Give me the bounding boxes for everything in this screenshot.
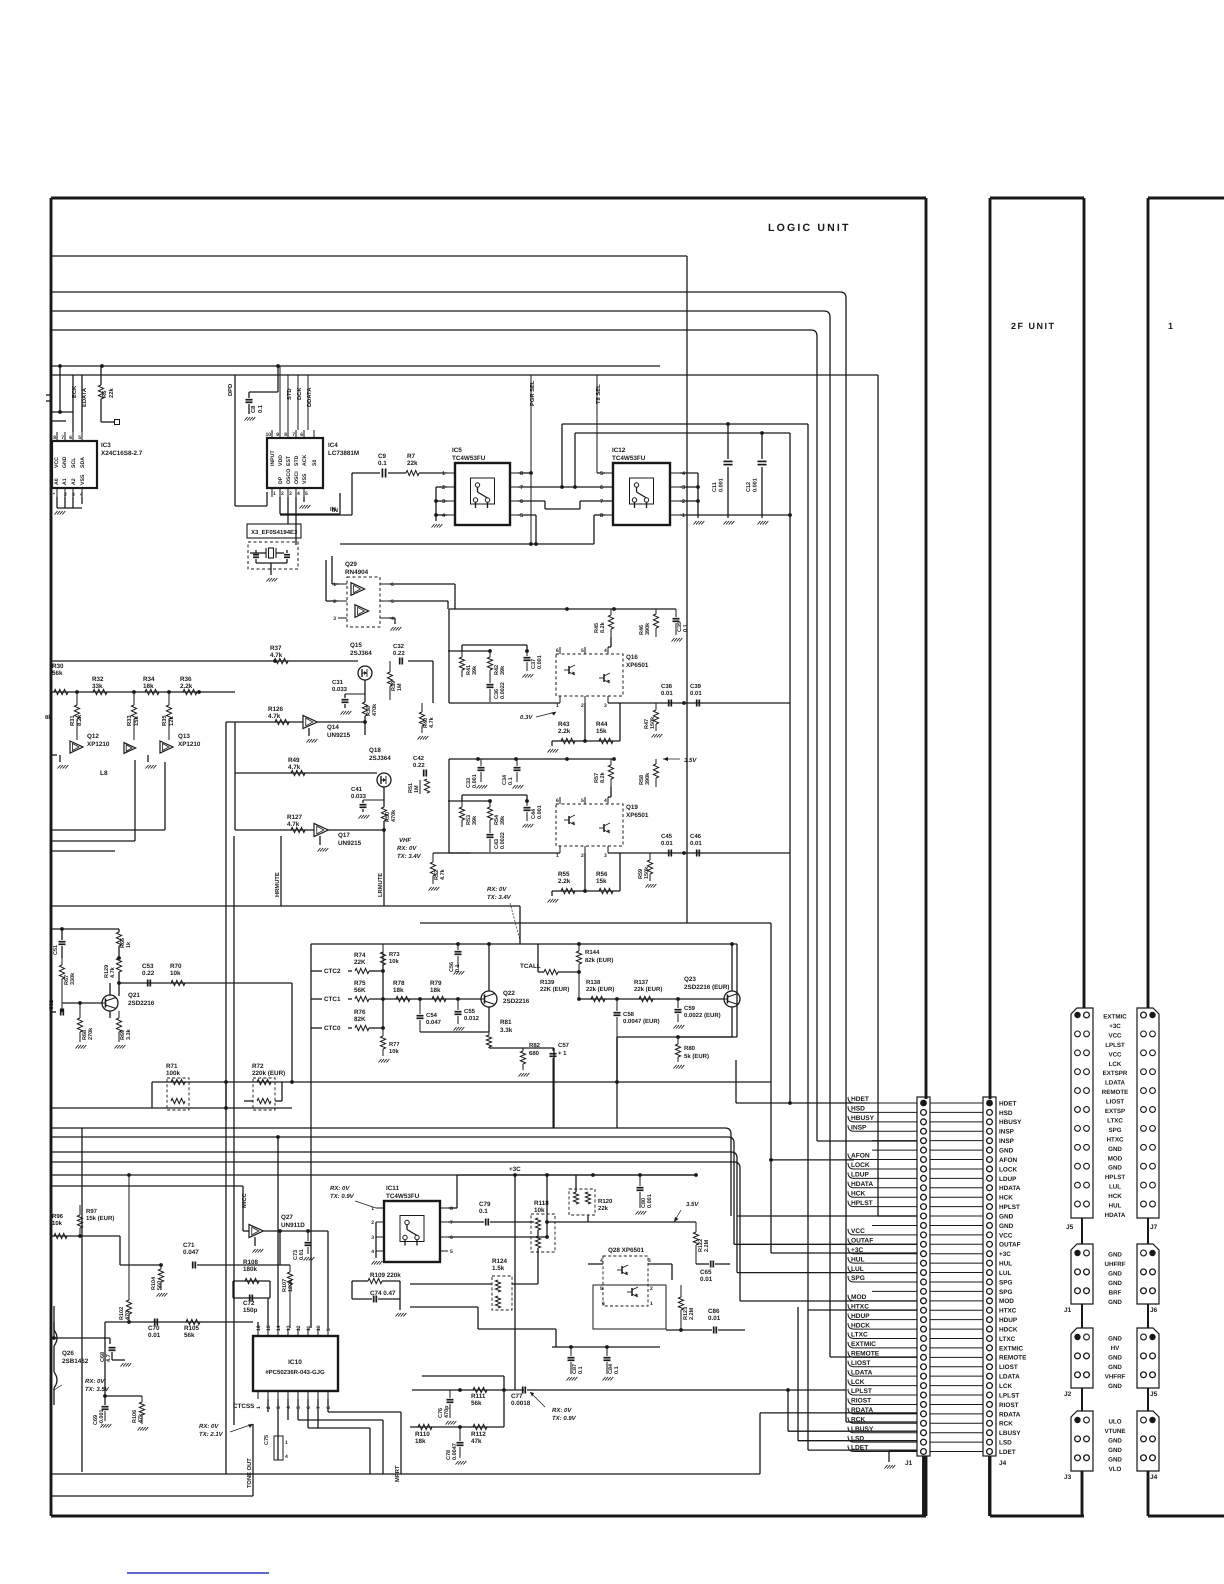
- svg-text:LIOST: LIOST: [851, 1360, 870, 1367]
- svg-text:J1: J1: [905, 1460, 913, 1467]
- svg-text:C86: C86: [708, 1308, 720, 1315]
- svg-text:HSD: HSD: [851, 1106, 865, 1113]
- svg-text:HDUP: HDUP: [851, 1313, 870, 1320]
- svg-text:1: 1: [1168, 321, 1173, 331]
- svg-text:STD: STD: [294, 455, 300, 466]
- svg-text:3.3k: 3.3k: [500, 1027, 513, 1034]
- svg-text:R49: R49: [288, 757, 300, 764]
- svg-text:ULO: ULO: [1108, 1419, 1121, 1426]
- svg-text:15k: 15k: [596, 878, 607, 885]
- svg-text:2.2k: 2.2k: [180, 683, 193, 690]
- svg-text:3.5V: 3.5V: [684, 757, 697, 764]
- svg-text:STD: STD: [286, 388, 293, 400]
- svg-text:2.2k: 2.2k: [558, 728, 571, 735]
- svg-text:DPD: DPD: [228, 384, 234, 396]
- svg-text:TX: 0.9V: TX: 0.9V: [552, 1415, 577, 1422]
- svg-text:ECK: ECK: [71, 385, 78, 398]
- svg-text:0.001: 0.001: [537, 805, 543, 819]
- svg-text:0.22: 0.22: [393, 650, 405, 657]
- svg-text:RDATA: RDATA: [851, 1407, 873, 1414]
- svg-text:4: 4: [285, 1454, 288, 1460]
- svg-text:C42: C42: [413, 755, 425, 762]
- svg-text:2.2M: 2.2M: [704, 1239, 710, 1252]
- svg-text:LPLST: LPLST: [999, 1392, 1019, 1399]
- svg-text:0.1: 0.1: [578, 1366, 584, 1374]
- svg-text:R81: R81: [500, 1019, 512, 1026]
- svg-text:HDUP: HDUP: [999, 1317, 1018, 1324]
- svg-text:3: 3: [289, 491, 292, 497]
- svg-text:SCL: SCL: [71, 457, 77, 468]
- svg-text:RCK: RCK: [851, 1416, 866, 1423]
- svg-text:UHFRF: UHFRF: [1105, 1261, 1126, 1268]
- svg-text:10: 10: [265, 432, 271, 438]
- svg-text:UN9215: UN9215: [327, 732, 351, 739]
- svg-text:100k: 100k: [166, 1070, 181, 1077]
- svg-text:HDET: HDET: [999, 1100, 1016, 1107]
- svg-text:EXTMIC: EXTMIC: [851, 1341, 876, 1348]
- svg-text:1M: 1M: [397, 683, 403, 691]
- svg-text:39k: 39k: [472, 815, 478, 825]
- svg-text:1: 1: [285, 1440, 288, 1446]
- svg-text:4.7k: 4.7k: [440, 868, 446, 880]
- svg-text:VLO: VLO: [1109, 1466, 1122, 1473]
- svg-text:47k: 47k: [471, 1438, 482, 1445]
- svg-text:MOD: MOD: [1108, 1155, 1123, 1162]
- svg-text:R79: R79: [430, 980, 442, 987]
- svg-text:HBUSY: HBUSY: [851, 1115, 875, 1122]
- svg-text:*: *: [53, 492, 55, 498]
- svg-text:TX: 0.9V: TX: 0.9V: [330, 1193, 355, 1200]
- svg-text:R126: R126: [268, 706, 284, 713]
- svg-text:GND: GND: [999, 1223, 1014, 1230]
- svg-text:0.047: 0.047: [426, 1019, 442, 1026]
- svg-text:5: 5: [600, 1286, 603, 1292]
- svg-text:10k: 10k: [52, 1220, 63, 1227]
- svg-text:#PC50236R-043-GJG: #PC50236R-043-GJG: [265, 1369, 325, 1376]
- svg-text:0.1: 0.1: [378, 460, 387, 467]
- svg-text:56k: 56k: [184, 1332, 195, 1339]
- svg-text:R56: R56: [596, 871, 608, 878]
- svg-text:C72: C72: [243, 1300, 255, 1307]
- svg-text:J3: J3: [1064, 1474, 1072, 1481]
- svg-text:R78: R78: [393, 980, 405, 987]
- svg-text:IC5: IC5: [452, 447, 462, 454]
- svg-text:3.3k: 3.3k: [126, 1028, 132, 1040]
- svg-text:0.01: 0.01: [148, 1332, 161, 1339]
- svg-text:LTXC: LTXC: [1107, 1117, 1123, 1124]
- svg-text:0.0047 (EUR): 0.0047 (EUR): [623, 1018, 660, 1025]
- svg-text:0.1: 0.1: [614, 1366, 620, 1374]
- svg-text:OUTAF: OUTAF: [851, 1238, 873, 1245]
- svg-text:ACK: ACK: [302, 455, 308, 466]
- svg-text:REMOTE: REMOTE: [999, 1355, 1027, 1362]
- svg-text:RCK: RCK: [999, 1421, 1013, 1428]
- svg-text:22k: 22k: [598, 1205, 609, 1212]
- svg-text:22k: 22k: [108, 388, 115, 398]
- svg-text:2: 2: [682, 499, 685, 505]
- svg-text:3: 3: [371, 1235, 374, 1241]
- svg-text:IC12: IC12: [612, 447, 626, 454]
- svg-text:R34: R34: [143, 676, 155, 683]
- svg-text:5: 5: [581, 648, 584, 654]
- svg-text:4: 4: [604, 648, 607, 654]
- svg-text:1: 1: [333, 582, 336, 588]
- svg-text:BRF: BRF: [1109, 1289, 1122, 1296]
- svg-text:7: 7: [292, 432, 295, 438]
- svg-text:TX: 2.1V: TX: 2.1V: [199, 1431, 224, 1438]
- svg-text:DP: DP: [278, 476, 284, 484]
- svg-text:DCK: DCK: [296, 387, 303, 400]
- svg-text:SPG: SPG: [999, 1279, 1013, 1286]
- svg-text:LBUSY: LBUSY: [851, 1426, 874, 1433]
- svg-text:GND: GND: [1108, 1364, 1122, 1371]
- svg-text:S0: S0: [312, 460, 318, 466]
- svg-text:C9: C9: [378, 453, 387, 460]
- svg-text:0.001: 0.001: [719, 478, 725, 492]
- svg-text:C39: C39: [690, 683, 702, 690]
- svg-text:4.7k: 4.7k: [110, 966, 116, 978]
- svg-text:2SD2216 (EUR): 2SD2216 (EUR): [684, 984, 730, 991]
- svg-text:PGR SEL: PGR SEL: [529, 380, 536, 406]
- svg-text:4.7: 4.7: [106, 1354, 112, 1362]
- svg-text:0.01: 0.01: [661, 840, 673, 847]
- svg-text:TC4W53FU: TC4W53FU: [612, 455, 646, 462]
- svg-text:CTC1: CTC1: [324, 996, 341, 1003]
- svg-text:13: 13: [286, 1325, 292, 1331]
- svg-text:0.01: 0.01: [299, 1249, 305, 1260]
- svg-text:HV: HV: [1111, 1345, 1120, 1352]
- svg-text:HUL: HUL: [1109, 1203, 1122, 1210]
- svg-text:0.1: 0.1: [455, 964, 461, 972]
- svg-text:4: 4: [297, 491, 300, 497]
- svg-text:2F UNIT: 2F UNIT: [1011, 321, 1056, 331]
- svg-text:2: 2: [266, 1406, 272, 1409]
- svg-text:R70: R70: [170, 963, 182, 970]
- svg-text:0.22: 0.22: [142, 970, 155, 977]
- svg-text:1: 1: [442, 471, 445, 477]
- svg-text:IC11: IC11: [386, 1185, 399, 1192]
- svg-text:C71: C71: [183, 1242, 195, 1249]
- svg-text:C57: C57: [558, 1042, 570, 1049]
- svg-text:R120: R120: [598, 1198, 613, 1205]
- svg-text:R73: R73: [389, 951, 400, 958]
- svg-text:3: 3: [276, 1406, 282, 1409]
- svg-text:8.2k: 8.2k: [600, 621, 606, 633]
- svg-text:1k: 1k: [126, 941, 132, 948]
- svg-text:4: 4: [604, 798, 607, 804]
- svg-text:LOCK: LOCK: [999, 1166, 1017, 1173]
- svg-text:0.1: 0.1: [683, 624, 689, 632]
- svg-text:LBUSY: LBUSY: [999, 1430, 1021, 1437]
- svg-text:2: 2: [442, 485, 445, 491]
- svg-text:SDA: SDA: [80, 457, 86, 468]
- svg-text:IC4: IC4: [328, 442, 338, 449]
- svg-text:RX: 0V: RX: 0V: [487, 886, 507, 893]
- svg-text:22k: 22k: [407, 460, 418, 467]
- svg-text:270k: 270k: [88, 1027, 94, 1040]
- svg-text:R31: R31: [69, 715, 76, 726]
- svg-text:XP1210: XP1210: [178, 741, 201, 748]
- svg-text:EST: EST: [286, 455, 292, 466]
- svg-text:560: 560: [157, 1281, 163, 1290]
- svg-text:220k (EUR): 220k (EUR): [252, 1070, 285, 1077]
- svg-text:5: 5: [305, 491, 308, 497]
- svg-text:OSCO: OSCO: [286, 469, 292, 484]
- svg-text:33k: 33k: [92, 683, 103, 690]
- svg-text:0.01: 0.01: [661, 690, 673, 697]
- svg-text:3: 3: [604, 703, 607, 709]
- svg-text:GND: GND: [1108, 1146, 1122, 1153]
- svg-text:22k (EUR): 22k (EUR): [586, 986, 614, 993]
- svg-text:LDATA: LDATA: [999, 1374, 1020, 1381]
- svg-text:LTXC: LTXC: [851, 1332, 868, 1339]
- svg-text:C31: C31: [332, 679, 344, 686]
- svg-text:R72: R72: [252, 1063, 264, 1070]
- svg-text:6: 6: [602, 1301, 605, 1307]
- svg-text:2: 2: [581, 853, 584, 859]
- svg-text:1M: 1M: [414, 785, 420, 793]
- svg-text:R74: R74: [354, 952, 366, 959]
- svg-text:470: 470: [125, 1311, 131, 1320]
- svg-text:A2: A2: [71, 478, 77, 485]
- svg-text:22k (EUR): 22k (EUR): [634, 986, 662, 993]
- svg-text:T8 SEL: T8 SEL: [595, 384, 602, 404]
- svg-text:VCC: VCC: [54, 457, 60, 468]
- svg-text:C77: C77: [511, 1393, 523, 1400]
- svg-text:VCC: VCC: [1108, 1051, 1122, 1058]
- svg-text:C51: C51: [53, 945, 59, 955]
- svg-text:INSP: INSP: [999, 1138, 1015, 1145]
- svg-text:LDUP: LDUP: [851, 1172, 870, 1179]
- svg-text:Q22: Q22: [503, 990, 515, 997]
- svg-text:7: 7: [61, 435, 64, 441]
- svg-text:8.2k: 8.2k: [76, 714, 83, 726]
- svg-text:18k: 18k: [393, 987, 404, 994]
- svg-text:C79: C79: [479, 1201, 491, 1208]
- svg-text:R137: R137: [634, 979, 649, 986]
- svg-text:SPG: SPG: [999, 1289, 1013, 1296]
- svg-text:0.0022 (EUR): 0.0022 (EUR): [684, 1012, 721, 1019]
- svg-text:UN911D: UN911D: [281, 1222, 305, 1229]
- svg-text:2: 2: [581, 703, 584, 709]
- svg-text:LDUP: LDUP: [999, 1176, 1017, 1183]
- svg-text:2SD2216: 2SD2216: [503, 998, 530, 1005]
- svg-text:J5: J5: [1150, 1391, 1158, 1398]
- svg-text:16: 16: [256, 1325, 262, 1331]
- svg-text:HTXC: HTXC: [999, 1308, 1017, 1315]
- svg-text:5: 5: [78, 435, 81, 441]
- svg-text:6: 6: [306, 1406, 312, 1409]
- svg-text:47k: 47k: [138, 1413, 144, 1423]
- svg-text:RX: 0V: RX: 0V: [85, 1378, 105, 1385]
- svg-text:LOCK: LOCK: [851, 1162, 870, 1169]
- svg-text:6: 6: [300, 432, 303, 438]
- svg-text:680: 680: [529, 1050, 540, 1057]
- svg-text:470p: 470p: [444, 1405, 450, 1418]
- svg-text:120k: 120k: [288, 1279, 294, 1292]
- svg-text:R55: R55: [558, 871, 570, 878]
- svg-text:R71: R71: [166, 1063, 178, 1070]
- svg-text:8: 8: [450, 1206, 453, 1212]
- svg-text:150k: 150k: [650, 716, 656, 729]
- svg-text:3: 3: [333, 616, 336, 622]
- svg-text:7: 7: [450, 1220, 453, 1226]
- svg-text:82K: 82K: [354, 1016, 366, 1023]
- svg-text:LDATA: LDATA: [1105, 1080, 1126, 1087]
- svg-text:R124: R124: [492, 1258, 508, 1265]
- svg-text:R33: R33: [126, 715, 133, 726]
- svg-text:LC73881M: LC73881M: [328, 450, 359, 457]
- svg-text:INSP: INSP: [999, 1129, 1015, 1136]
- svg-text:VSS: VSS: [80, 474, 86, 485]
- svg-text:5: 5: [600, 471, 603, 477]
- svg-text:0.0022: 0.0022: [500, 832, 506, 849]
- svg-text:2: 2: [371, 1220, 374, 1226]
- svg-text:HCK: HCK: [851, 1190, 866, 1197]
- svg-text:0.0047: 0.0047: [452, 1443, 458, 1460]
- svg-text:HUL: HUL: [999, 1261, 1012, 1268]
- svg-text:18k: 18k: [430, 987, 441, 994]
- svg-text:0.22: 0.22: [413, 762, 425, 769]
- svg-text:R35: R35: [161, 715, 168, 726]
- svg-text:CTCSS: CTCSS: [233, 1403, 254, 1410]
- svg-text:4: 4: [391, 616, 394, 622]
- svg-text:12: 12: [296, 1325, 302, 1331]
- svg-text:LUL: LUL: [851, 1266, 864, 1273]
- svg-text:HPLST: HPLST: [851, 1200, 873, 1207]
- svg-text:INSP: INSP: [851, 1124, 867, 1131]
- svg-text:GND: GND: [1108, 1280, 1122, 1287]
- svg-text:OSCI: OSCI: [294, 471, 300, 484]
- svg-text:VHF: VHF: [399, 837, 411, 844]
- svg-text:VHFRF: VHFRF: [1105, 1373, 1126, 1380]
- svg-text:6: 6: [69, 435, 72, 441]
- svg-text:J4: J4: [999, 1460, 1007, 1467]
- svg-text:18k: 18k: [143, 683, 154, 690]
- svg-text:GND: GND: [1108, 1299, 1122, 1306]
- svg-text:MICC: MICC: [241, 1192, 248, 1208]
- svg-text:0.001: 0.001: [537, 655, 543, 669]
- svg-text:9: 9: [326, 1328, 332, 1331]
- svg-text:GND: GND: [999, 1213, 1014, 1220]
- svg-text:5: 5: [296, 1406, 302, 1409]
- svg-text:3: 3: [442, 499, 445, 505]
- svg-text:Q16: Q16: [626, 654, 638, 661]
- svg-text:10k: 10k: [534, 1207, 545, 1214]
- svg-text:HDET: HDET: [851, 1096, 869, 1103]
- svg-text:22K (EUR): 22K (EUR): [540, 986, 569, 993]
- svg-text:0.0022: 0.0022: [500, 682, 506, 699]
- svg-text:0.033: 0.033: [332, 686, 348, 693]
- svg-text:R32: R32: [92, 676, 104, 683]
- svg-text:6: 6: [556, 798, 559, 804]
- svg-text:LRMUTE: LRMUTE: [378, 873, 384, 897]
- svg-text:3.5V: 3.5V: [686, 1201, 699, 1208]
- svg-text:OUTAF: OUTAF: [999, 1242, 1021, 1249]
- svg-text:22K: 22K: [354, 959, 366, 966]
- svg-text:R138: R138: [586, 979, 601, 986]
- svg-text:R7: R7: [407, 453, 416, 460]
- svg-text:56K: 56K: [354, 987, 366, 994]
- svg-text:INPUT: INPUT: [270, 450, 276, 466]
- svg-text:C70: C70: [148, 1325, 160, 1332]
- svg-text:5: 5: [520, 513, 523, 519]
- svg-text:0.033: 0.033: [351, 793, 367, 800]
- svg-text:1: 1: [682, 513, 685, 519]
- svg-text:X24C16S8-2.7: X24C16S8-2.7: [101, 450, 143, 457]
- svg-text:5: 5: [450, 1249, 453, 1255]
- svg-text:39k: 39k: [500, 815, 506, 825]
- svg-text:18k: 18k: [415, 1438, 426, 1445]
- svg-text:R109 220k: R109 220k: [370, 1272, 401, 1279]
- svg-text:5: 5: [581, 798, 584, 804]
- svg-text:R43: R43: [558, 721, 570, 728]
- svg-text:0.047: 0.047: [183, 1249, 199, 1256]
- svg-text:LUL: LUL: [1109, 1184, 1121, 1191]
- svg-text:LDET: LDET: [851, 1445, 868, 1452]
- svg-text:6: 6: [600, 485, 603, 491]
- svg-text:HUL: HUL: [851, 1256, 865, 1263]
- svg-text:L8: L8: [100, 770, 108, 777]
- svg-text:LCK: LCK: [851, 1379, 865, 1386]
- svg-text:LUL: LUL: [999, 1270, 1012, 1277]
- svg-text:150k: 150k: [644, 866, 650, 879]
- svg-text:0.012: 0.012: [464, 1015, 480, 1022]
- svg-text:1.5k: 1.5k: [492, 1265, 505, 1272]
- svg-text:4: 4: [600, 1258, 603, 1264]
- svg-text:GND: GND: [1108, 1270, 1122, 1277]
- svg-text:4.7k: 4.7k: [429, 716, 435, 728]
- svg-text:39k: 39k: [500, 665, 506, 675]
- svg-text:VSS: VSS: [302, 473, 308, 484]
- svg-text:Q26: Q26: [62, 1350, 74, 1357]
- svg-text:8k: 8k: [45, 714, 52, 721]
- svg-text:R97: R97: [86, 1208, 98, 1215]
- svg-text:0.001: 0.001: [753, 478, 759, 492]
- svg-text:R111: R111: [471, 1393, 486, 1400]
- svg-text:Q28 XP6501: Q28 XP6501: [608, 1247, 645, 1254]
- svg-text:2: 2: [333, 599, 336, 605]
- svg-text:LCK: LCK: [999, 1383, 1013, 1390]
- svg-text:RN4904: RN4904: [345, 569, 369, 576]
- svg-text:R144: R144: [585, 949, 600, 956]
- svg-text:0.01: 0.01: [690, 840, 702, 847]
- svg-text:VTUNE: VTUNE: [1105, 1428, 1126, 1435]
- svg-text:C53: C53: [142, 963, 154, 970]
- svg-text:Q15: Q15: [350, 642, 362, 649]
- svg-text:EXTSP: EXTSP: [1105, 1108, 1125, 1115]
- svg-text:Q17: Q17: [338, 832, 350, 839]
- svg-text:150p: 150p: [243, 1307, 258, 1314]
- svg-text:8.2k: 8.2k: [600, 771, 606, 783]
- svg-text:C11: C11: [712, 482, 718, 492]
- svg-text:10k: 10k: [170, 970, 181, 977]
- svg-text:J6: J6: [1150, 1307, 1158, 1314]
- svg-text:LDET: LDET: [999, 1449, 1016, 1456]
- svg-text:-0.001: -0.001: [99, 1409, 105, 1425]
- svg-text:2: 2: [650, 1286, 653, 1292]
- svg-text:10k: 10k: [389, 958, 399, 965]
- svg-text:390k: 390k: [645, 772, 651, 785]
- svg-text:MOD: MOD: [999, 1298, 1014, 1305]
- svg-text:8: 8: [326, 1406, 332, 1409]
- svg-text:RX: 0V: RX: 0V: [330, 1185, 350, 1192]
- svg-text:8: 8: [520, 471, 523, 477]
- svg-text:+3C: +3C: [1109, 1023, 1121, 1030]
- svg-text:C59: C59: [684, 1005, 696, 1012]
- svg-text:R36: R36: [180, 676, 192, 683]
- svg-text:R139: R139: [540, 979, 555, 986]
